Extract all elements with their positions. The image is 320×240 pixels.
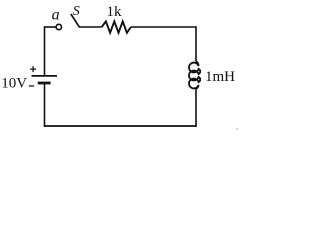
wire: left vertical top (top corner down to battery): [44, 26, 46, 76]
wire: bottom horizontal: [44, 125, 197, 127]
battery V1 short negative plate: [38, 82, 51, 85]
switch S blade: [71, 15, 79, 27]
inductor L coil: [189, 61, 200, 88]
svg-text:S: S: [73, 4, 80, 19]
stray scan artifact dot: [236, 128, 238, 130]
wire: top-left horizontal from corner to node a: [45, 26, 57, 28]
svg-text:1k: 1k: [107, 4, 123, 20]
battery polarity plus sign: [30, 66, 36, 72]
wire: right vertical bottom segment: [195, 88, 197, 126]
svg-text:10V: 10V: [1, 76, 27, 92]
resistor R 1k zigzag: [102, 21, 131, 32]
wire: left vertical bottom (battery to bottom corner): [44, 83, 46, 127]
svg-text:1mH: 1mH: [205, 69, 235, 85]
wire: switch to resistor: [79, 26, 102, 28]
svg-text:a: a: [52, 6, 60, 23]
wire: resistor to top-right corner: [131, 26, 196, 28]
wire: right vertical top segment: [195, 26, 197, 61]
battery polarity minus sign: [29, 85, 34, 87]
battery V1 long positive plate: [32, 75, 58, 77]
node a terminal circle: [56, 24, 61, 29]
